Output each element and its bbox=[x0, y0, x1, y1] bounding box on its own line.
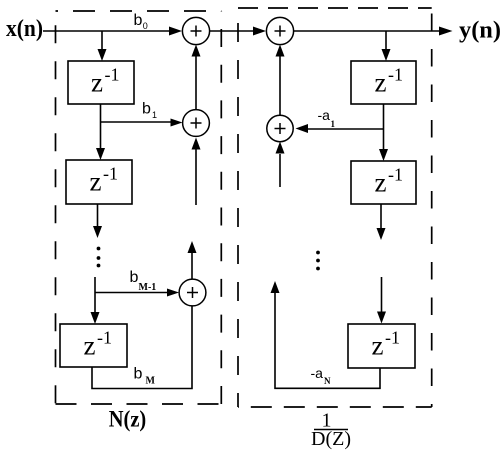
svg-text:N: N bbox=[324, 376, 331, 386]
svg-text:0: 0 bbox=[143, 21, 148, 31]
svg-text:-1: -1 bbox=[97, 327, 112, 347]
svg-text:z: z bbox=[372, 330, 384, 360]
svg-text:N(z): N(z) bbox=[109, 407, 147, 432]
svg-text:-a: -a bbox=[318, 107, 331, 123]
svg-text:z: z bbox=[375, 167, 387, 197]
svg-text:z: z bbox=[375, 67, 387, 97]
svg-text:D(Z): D(Z) bbox=[311, 428, 351, 450]
svg-text:-1: -1 bbox=[388, 164, 403, 184]
svg-text:x(n): x(n) bbox=[6, 16, 43, 42]
svg-text:1: 1 bbox=[331, 119, 336, 129]
svg-text:y(n): y(n) bbox=[459, 18, 501, 44]
svg-text:z: z bbox=[84, 330, 96, 360]
svg-text:-a: -a bbox=[311, 365, 324, 381]
svg-text:M: M bbox=[146, 376, 156, 387]
svg-text:M-1: M-1 bbox=[139, 282, 157, 293]
svg-text:z: z bbox=[90, 166, 102, 196]
svg-text:b: b bbox=[142, 101, 151, 118]
svg-text:b: b bbox=[134, 366, 143, 383]
svg-text:-1: -1 bbox=[103, 163, 118, 183]
svg-text:1: 1 bbox=[152, 110, 157, 120]
svg-text:b: b bbox=[134, 12, 143, 29]
svg-text:b: b bbox=[130, 269, 139, 286]
svg-text:-1: -1 bbox=[388, 64, 403, 84]
svg-text:-1: -1 bbox=[385, 327, 400, 347]
svg-text:z: z bbox=[91, 67, 103, 97]
svg-text:-1: -1 bbox=[105, 64, 120, 84]
